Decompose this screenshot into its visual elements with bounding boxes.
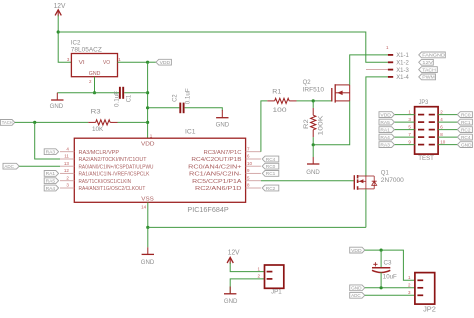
wire IC2 GND pin down: [94, 77, 96, 93]
wire IC1 RC5 to Q1 gate: [261, 180, 354, 182]
junction R1 / R2 / gate: [312, 99, 315, 102]
svg-text:6: 6: [440, 124, 443, 129]
JP2 pin pad 1: [417, 279, 423, 281]
IC1 right pin stub row 2 (pin 6): [246, 158, 261, 160]
junction VSS / ground bus: [146, 226, 149, 229]
JP3 pin pad 7 (left): [418, 136, 424, 138]
svg-text:RA5/T1CKI/OSC1/CLKIN: RA5/T1CKI/OSC1/CLKIN: [79, 179, 132, 185]
svg-text:7: 7: [408, 132, 411, 137]
junction C3 / GND wire: [380, 286, 383, 289]
ground symbol GND (below IC1): [147, 227, 149, 247]
svg-text:RC0: RC0: [266, 164, 276, 169]
svg-text:2: 2: [440, 109, 443, 114]
svg-text:0.1uF: 0.1uF: [185, 88, 192, 104]
junction VDD rail / R3: [146, 121, 149, 124]
resistor R2 (gate pulldown): [311, 115, 316, 130]
svg-text:VDD: VDD: [160, 60, 171, 65]
connector pin X1-1: [388, 54, 393, 56]
transistor Q2 IRF510 (power MOSFET): [332, 84, 350, 102]
wire IC1 RC3 up to R1: [261, 101, 267, 152]
svg-text:8: 8: [440, 132, 443, 137]
svg-text:1: 1: [118, 57, 121, 62]
wire R2 top lead: [312, 101, 314, 108]
svg-text:RC1: RC1: [461, 120, 471, 125]
JP3 pin pad 3 (left): [418, 121, 424, 123]
wire JP3 pin 3: [394, 121, 414, 123]
svg-text:78L05ACZ: 78L05ACZ: [71, 47, 102, 54]
wire 12V supply to IC2 VI: [58, 16, 71, 63]
label flag VDD (top): [156, 59, 171, 65]
label flag RC1 (JP3 pin 4): [457, 119, 472, 125]
connector JP3 (TEST header): [415, 107, 439, 154]
label flag RC1 (IC1 pin 9): [262, 171, 279, 177]
svg-text:RC0/AN4/C2IN+: RC0/AN4/C2IN+: [188, 164, 241, 170]
label flag ADC (left edge): [3, 163, 19, 169]
svg-text:RC4: RC4: [461, 135, 471, 140]
label flag RA4 (IC1 pin 3): [44, 185, 58, 191]
label flag GND (bottom): [350, 285, 365, 291]
connector JP2: [415, 273, 435, 305]
svg-text:12V: 12V: [54, 3, 66, 10]
svg-text:RA3/MCLR/VPP: RA3/MCLR/VPP: [79, 150, 120, 156]
JP1 pin pad 1: [267, 271, 273, 273]
svg-text:X1-3: X1-3: [396, 68, 409, 74]
svg-text:ADC: ADC: [351, 293, 361, 298]
wire X1-4 to Q1 drain: [366, 77, 388, 176]
svg-text:13: 13: [64, 161, 70, 166]
svg-text:GND: GND: [461, 142, 472, 147]
svg-text:10: 10: [247, 161, 253, 166]
label flag VDD (bottom): [350, 247, 365, 253]
svg-text:JP3: JP3: [419, 99, 429, 106]
svg-text:GND: GND: [351, 286, 362, 291]
label flag PWM (X1-4): [419, 74, 436, 80]
label flag RC4 (IC1 pin 6): [262, 156, 279, 162]
svg-text:5: 5: [408, 124, 411, 129]
label flag RC4 (JP3 pin 8): [457, 134, 472, 140]
svg-text:VSS: VSS: [141, 197, 154, 203]
label flag RA5 (JP3 pin 3): [379, 119, 394, 125]
svg-text:ADC: ADC: [4, 164, 14, 169]
svg-text:RA5: RA5: [380, 120, 390, 125]
wire JP3 pin 4: [438, 121, 457, 123]
svg-text:8: 8: [247, 183, 250, 188]
svg-text:10: 10: [440, 139, 446, 144]
IC1 right pin stub row 5 (pin 5): [246, 180, 261, 182]
svg-text:IC2: IC2: [71, 39, 81, 46]
svg-text:1: 1: [386, 45, 389, 50]
svg-text:14: 14: [141, 204, 147, 209]
svg-text:12: 12: [64, 168, 70, 173]
svg-text:X1-4: X1-4: [396, 75, 409, 81]
svg-text:3: 3: [408, 117, 411, 122]
svg-text:FANGND: FANGND: [422, 53, 445, 58]
junction TACH branch: [33, 121, 36, 124]
wire GND flag to JP2 pin 2: [365, 287, 415, 289]
label flag RC2 (IC1 pin 8): [262, 185, 279, 191]
JP3 pin pad 8 (right): [429, 136, 435, 138]
svg-text:PWM: PWM: [422, 75, 435, 80]
svg-text:12V: 12V: [422, 60, 433, 65]
wire VDD rail to C2: [148, 107, 180, 109]
svg-text:RA3: RA3: [46, 150, 56, 155]
label flag RC0 (IC1 pin 10): [262, 163, 279, 169]
svg-text:9: 9: [247, 168, 250, 173]
JP3 pin pad 5 (left): [418, 129, 424, 131]
wire ground bus to Q1 source: [148, 226, 366, 228]
wire 12V to JP1 pin 1: [230, 263, 264, 272]
svg-text:RC0: RC0: [461, 112, 471, 117]
wire VDD rail down to IC1: [147, 62, 149, 138]
svg-text:RA4: RA4: [46, 186, 56, 191]
label flag FANGND (X1-1): [419, 52, 446, 58]
svg-text:RC5/CCP1/P1A: RC5/CCP1/P1A: [192, 179, 242, 185]
ground symbol GND (right of C2): [221, 110, 223, 118]
wire Q2 source to ground: [313, 101, 350, 145]
svg-text:VI: VI: [79, 60, 85, 66]
transistor Q1 2N7000 (small-signal MOSFET): [354, 175, 376, 190]
svg-text:RC2: RC2: [461, 127, 471, 132]
svg-text:IC1: IC1: [185, 128, 196, 135]
wire JP1 pin 2 to ground: [230, 279, 264, 293]
svg-text:RC3/AN7/P1C: RC3/AN7/P1C: [204, 150, 242, 156]
junction IC2 GND / GND wire: [93, 91, 96, 94]
wire ADC to IC1 RA0: [19, 165, 60, 167]
label flag TACH (left edge): [0, 120, 14, 126]
svg-text:RC4: RC4: [266, 157, 276, 162]
svg-text:Q2: Q2: [303, 79, 311, 86]
svg-text:GND: GND: [89, 71, 101, 77]
svg-text:VDD: VDD: [141, 141, 155, 147]
JP3 pin pad 1 (left): [418, 114, 424, 116]
svg-text:RA5: RA5: [46, 179, 56, 184]
label flag RA5 (IC1 pin 2): [44, 178, 58, 184]
svg-text:3: 3: [408, 290, 411, 295]
wire JP3 pin 10: [438, 144, 457, 146]
wire C2 to ground: [185, 108, 223, 111]
IC1 left pin stub row 4 (pin 12): [60, 172, 74, 174]
svg-text:5: 5: [247, 175, 250, 180]
label flag RC0 (JP3 pin 2): [457, 112, 472, 118]
label flag TACH (X1-3): [419, 67, 438, 73]
wire stub to VDD flag: [148, 61, 156, 63]
svg-text:2: 2: [89, 79, 92, 84]
ground symbol GND (below IC2): [56, 93, 58, 100]
svg-text:2N7000: 2N7000: [381, 177, 404, 184]
wire R2 bottom lead: [312, 137, 314, 145]
label flag RA1 (JP3 pin 5): [379, 127, 394, 133]
svg-text:1: 1: [257, 266, 260, 271]
JP3 pin pad 4 (right): [429, 121, 435, 123]
wire TACH down to IC1 RA2: [35, 122, 60, 159]
svg-text:C1: C1: [125, 94, 132, 102]
JP1 pin pad 2: [267, 278, 273, 280]
JP2 pin pad 3: [417, 294, 423, 296]
svg-text:3: 3: [66, 183, 69, 188]
svg-text:4: 4: [440, 117, 443, 122]
wire JP3 pin 1: [394, 114, 414, 116]
JP3 pin pad 2 (right): [429, 114, 435, 116]
connector pin X1-4: [388, 76, 393, 78]
svg-text:TEST: TEST: [418, 155, 434, 162]
junction VO / VDD: [146, 61, 149, 64]
svg-text:X1-2: X1-2: [396, 61, 409, 67]
svg-text:RA0/AN0/C1IN+/ICSPDAT/ULPWU: RA0/AN0/C1IN+/ICSPDAT/ULPWU: [79, 164, 154, 170]
resistor R1: [275, 98, 290, 103]
svg-text:7: 7: [247, 146, 250, 151]
svg-text:C2: C2: [171, 94, 178, 102]
svg-text:RA4: RA4: [380, 135, 390, 140]
svg-text:IRF510: IRF510: [303, 87, 325, 94]
voltage regulator IC2 78L05ACZ: [71, 54, 117, 77]
wire JP3 pin 8: [438, 136, 457, 138]
IC1 left pin stub row 2 (pin 11): [60, 158, 74, 160]
capacitor C3 10uF (electrolytic): [380, 250, 382, 267]
IC1 left pin stub row 3 (pin 13): [60, 165, 74, 167]
IC1 right pin stub row 6 (pin 8): [246, 187, 261, 189]
wire VDD flag to JP2 pin 1: [365, 250, 415, 280]
wire IC2 VO to VDD rail: [118, 61, 148, 63]
connector pin X1-3: [366, 69, 388, 71]
IC1 right pin stub row 4 (pin 9): [246, 172, 261, 174]
wire ADC flag to JP2 pin 3: [365, 294, 415, 296]
svg-text:4: 4: [66, 146, 69, 151]
IC1 left pin stub row 5 (pin 2): [60, 180, 74, 182]
wire Q2 drain to X1-1: [350, 55, 388, 85]
svg-text:RC1/AN5/C2IN-: RC1/AN5/C2IN-: [189, 172, 242, 178]
JP3 pin pad 10 (right): [429, 144, 435, 146]
JP2 pin pad 2: [417, 287, 423, 289]
wire JP3 pin 9: [394, 144, 414, 146]
wire C1 to VDD rail: [124, 92, 147, 94]
svg-text:RC1: RC1: [266, 171, 276, 176]
junction R2 / source / ground: [312, 143, 315, 146]
wire GND net to C1: [57, 92, 119, 94]
label flag 12V (X1-2): [419, 59, 434, 65]
capacitor C2 0.1uF: [179, 103, 181, 114]
junction VDD rail / C1: [146, 91, 149, 94]
svg-text:100: 100: [273, 107, 288, 114]
svg-text:2: 2: [257, 274, 260, 279]
svg-text:RA1/AN1/C1IN-/VREF/ICSPCLK: RA1/AN1/C1IN-/VREF/ICSPCLK: [79, 172, 150, 178]
connector JP1: [265, 265, 284, 288]
svg-text:RA4/AN3/T1G/OSC2/CLKOUT: RA4/AN3/T1G/OSC2/CLKOUT: [79, 186, 147, 192]
svg-text:TACH: TACH: [422, 67, 436, 72]
svg-text:GND: GND: [141, 259, 155, 266]
junction 12V rail: [57, 30, 60, 33]
svg-text:GND: GND: [224, 298, 238, 305]
label flag RA3 (IC1 pin 4): [44, 149, 58, 155]
svg-text:9: 9: [408, 139, 411, 144]
svg-text:C3: C3: [384, 260, 392, 267]
label flag ADC (bottom): [350, 292, 365, 298]
svg-text:1: 1: [408, 275, 411, 280]
svg-text:100K: 100K: [318, 114, 325, 135]
svg-text:GND: GND: [50, 103, 64, 110]
svg-text:R1: R1: [272, 89, 281, 96]
svg-text:RC4/C2OUT/P1B: RC4/C2OUT/P1B: [191, 157, 242, 163]
svg-text:VDD: VDD: [380, 112, 391, 117]
ground symbol GND (below R2): [312, 145, 314, 157]
svg-text:10uF: 10uF: [383, 273, 397, 280]
wire JP3 pin 2: [438, 114, 457, 116]
wire JP3 pin 5: [394, 129, 414, 131]
capacitor C1 0.1uF: [119, 87, 121, 99]
svg-text:3: 3: [67, 57, 70, 62]
svg-text:PIC16F684P: PIC16F684P: [187, 207, 229, 214]
svg-text:1: 1: [408, 109, 411, 114]
svg-text:RC2: RC2: [266, 186, 276, 191]
label flag VDD (JP3 pin 1): [379, 112, 394, 118]
IC1 right pin stub row 1 (pin 7): [246, 151, 261, 153]
wire Q1 source to ground bus: [365, 189, 367, 228]
svg-text:X1-1: X1-1: [396, 53, 409, 59]
svg-text:GND: GND: [306, 169, 320, 176]
svg-text:VDD: VDD: [351, 248, 362, 253]
svg-text:R2: R2: [303, 119, 310, 129]
ground symbol GND (below JP1): [229, 287, 231, 294]
wire JP3 pin 7: [394, 136, 414, 138]
wire R1 to Q2 gate: [297, 100, 332, 102]
svg-text:RA2/AN2/T0CKI/INT/C1OUT: RA2/AN2/T0CKI/INT/C1OUT: [79, 157, 148, 163]
svg-text:RA1: RA1: [46, 171, 56, 176]
svg-text:2: 2: [66, 175, 69, 180]
label flag RA3 (JP3 pin 9): [379, 142, 394, 148]
label flag RA4 (JP3 pin 7): [379, 134, 394, 140]
wire 12V rail to X1-2: [58, 32, 388, 62]
svg-text:RA1: RA1: [380, 127, 390, 132]
svg-text:GND: GND: [216, 121, 230, 128]
svg-text:VO: VO: [103, 60, 110, 66]
svg-text:JP1: JP1: [271, 288, 282, 295]
wire JP3 pin 6: [438, 129, 457, 131]
svg-text:6: 6: [247, 154, 250, 159]
wire IC1 VSS to ground bus: [147, 202, 149, 227]
wire TACH to R3: [15, 121, 89, 123]
JP3 pin pad 9 (left): [418, 144, 424, 146]
svg-text:11: 11: [64, 154, 69, 159]
JP3 pin pad 6 (right): [429, 129, 435, 131]
svg-text:2: 2: [408, 283, 411, 288]
label flag GND (JP3 pin 10): [457, 142, 472, 148]
svg-text:Q1: Q1: [381, 169, 389, 176]
resistor R3: [96, 120, 111, 125]
svg-text:0.1uF: 0.1uF: [113, 91, 120, 107]
svg-text:RA3: RA3: [380, 142, 390, 147]
svg-text:JP2: JP2: [423, 307, 436, 313]
svg-text:R3: R3: [91, 109, 102, 116]
svg-text:10K: 10K: [92, 126, 104, 133]
connector pin X1-2: [388, 61, 393, 63]
svg-text:12V: 12V: [228, 250, 240, 257]
junction VDD / C3: [380, 249, 383, 252]
svg-text:TACH: TACH: [2, 120, 13, 125]
label flag RC2 (JP3 pin 6): [457, 127, 472, 133]
IC1 left pin stub row 1 (pin 4): [60, 151, 74, 153]
IC1 right pin stub row 3 (pin 10): [246, 165, 261, 167]
svg-text:RC2/AN6/P1D: RC2/AN6/P1D: [195, 186, 242, 192]
wire R3 to VDD rail: [118, 121, 148, 123]
junction VDD rail / C2: [146, 106, 149, 109]
microcontroller IC1 PIC16F684P: [74, 138, 245, 202]
label flag RA1 (IC1 pin 12): [44, 171, 58, 177]
IC1 left pin stub row 6 (pin 3): [60, 187, 74, 189]
